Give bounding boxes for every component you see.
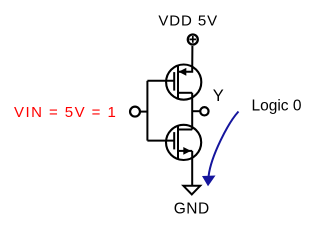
svg-text:GND: GND <box>174 200 210 217</box>
wire NMOS gate lead <box>147 140 174 142</box>
wire input bus vertical <box>146 81 148 141</box>
wire PMOS drain down to NMOS drain <box>191 93 193 130</box>
NMOS body circle <box>166 125 201 160</box>
PMOS body circle <box>166 65 201 100</box>
output terminal circle <box>200 107 208 115</box>
wire NMOS source to ground <box>191 151 193 186</box>
PMOS source arrow (points left) <box>179 68 187 76</box>
wire input stub <box>141 111 148 113</box>
transistor NMOS (pull-down) <box>166 125 201 160</box>
wire PMOS gate lead <box>147 80 174 82</box>
svg-text:VDD 5V: VDD 5V <box>158 12 218 29</box>
annotation arrow (blue, from Logic 0 to output wire) <box>202 112 239 187</box>
transistor PMOS (pull-up) <box>166 65 201 100</box>
wire VDD to PMOS source lead <box>178 46 192 72</box>
PMOS channel bar (chord) <box>177 65 179 98</box>
ground symbol <box>183 186 200 195</box>
NMOS gate bar <box>173 132 175 149</box>
NMOS source lead (bottom) <box>178 150 192 152</box>
NMOS source arrow (points right) <box>183 147 191 155</box>
NMOS drain lead (top) <box>178 129 192 131</box>
wire output stub <box>192 110 200 112</box>
svg-text:Logic 0: Logic 0 <box>252 98 302 115</box>
VDD supply terminal (circle with plus) <box>188 35 198 45</box>
NMOS channel bar (chord) <box>177 126 179 159</box>
svg-text:Y: Y <box>213 87 224 105</box>
input terminal circle <box>130 107 140 117</box>
PMOS gate bar <box>173 72 175 91</box>
svg-text:VIN = 5V = 1: VIN = 5V = 1 <box>14 104 117 121</box>
PMOS drain lead (bottom) <box>178 92 192 94</box>
